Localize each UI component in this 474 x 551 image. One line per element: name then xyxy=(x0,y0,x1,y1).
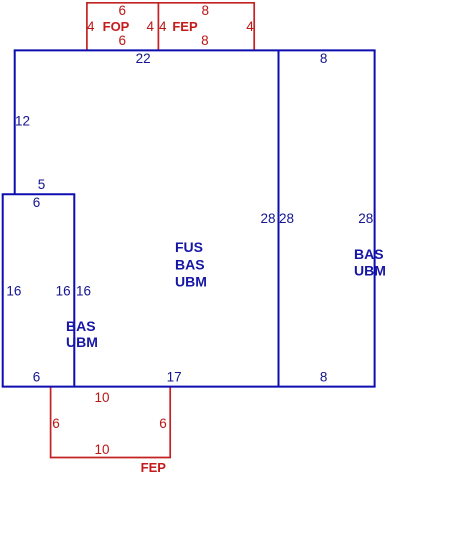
svg-text:FEP: FEP xyxy=(141,460,167,475)
svg-text:BAS: BAS xyxy=(66,318,96,334)
main blue outline xyxy=(2,50,376,386)
svg-text:10: 10 xyxy=(94,390,109,405)
svg-text:UBM: UBM xyxy=(175,274,207,290)
svg-text:4: 4 xyxy=(147,19,155,34)
room label BAS UBM left annex xyxy=(66,318,98,350)
svg-text:BAS: BAS xyxy=(175,256,205,272)
svg-text:6: 6 xyxy=(118,33,126,48)
wire left-annex top edge xyxy=(2,193,76,195)
room FOP top box xyxy=(86,3,255,51)
svg-text:22: 22 xyxy=(136,51,151,66)
svg-text:BAS: BAS xyxy=(354,246,384,262)
wire FEP-bottom right edge xyxy=(169,387,171,458)
svg-text:10: 10 xyxy=(94,442,109,457)
svg-text:8: 8 xyxy=(320,51,328,66)
wire upper-left edge xyxy=(14,50,16,194)
labels red bottom xyxy=(52,390,167,475)
svg-text:4: 4 xyxy=(87,19,95,34)
wire top edge xyxy=(14,49,376,51)
wire FOP left edge xyxy=(86,3,88,51)
svg-text:FUS: FUS xyxy=(175,239,203,255)
labels blue xyxy=(6,51,373,384)
svg-text:17: 17 xyxy=(167,369,182,384)
svg-text:FEP: FEP xyxy=(172,19,198,34)
svg-text:UBM: UBM xyxy=(354,263,386,279)
svg-text:6: 6 xyxy=(52,416,60,431)
svg-text:16: 16 xyxy=(76,284,91,299)
svg-text:UBM: UBM xyxy=(66,334,98,350)
svg-text:8: 8 xyxy=(320,370,328,385)
svg-text:16: 16 xyxy=(56,284,71,299)
room FEP bottom box xyxy=(50,387,171,458)
wire FOP/FEP shared edge xyxy=(157,3,159,51)
svg-text:4: 4 xyxy=(246,19,254,34)
room label FUS BAS UBM middle xyxy=(175,239,207,290)
wire FEP right edge xyxy=(253,3,255,51)
room label BAS UBM right xyxy=(354,246,386,279)
svg-text:6: 6 xyxy=(33,195,41,210)
svg-text:8: 8 xyxy=(201,33,209,48)
svg-text:28: 28 xyxy=(260,211,275,226)
wire FEP-bottom bottom edge xyxy=(50,457,171,459)
wire left-annex right divider xyxy=(73,194,75,386)
svg-text:5: 5 xyxy=(38,177,46,192)
svg-text:FOP: FOP xyxy=(103,19,130,34)
labels red top xyxy=(87,3,254,48)
wire far-left edge xyxy=(2,194,4,386)
wire right edge xyxy=(374,50,376,386)
svg-text:6: 6 xyxy=(118,3,126,18)
svg-text:8: 8 xyxy=(202,3,210,18)
wire middle divider xyxy=(278,50,280,386)
svg-text:6: 6 xyxy=(159,416,167,431)
svg-text:28: 28 xyxy=(358,211,373,226)
svg-text:6: 6 xyxy=(33,370,41,385)
svg-text:4: 4 xyxy=(159,19,167,34)
wire FOP/FEP top edge xyxy=(86,2,255,4)
svg-text:16: 16 xyxy=(6,284,21,299)
wire bottom edge xyxy=(2,386,376,388)
svg-text:28: 28 xyxy=(279,211,294,226)
svg-text:12: 12 xyxy=(15,114,30,129)
wire FEP-bottom left edge xyxy=(50,387,52,458)
